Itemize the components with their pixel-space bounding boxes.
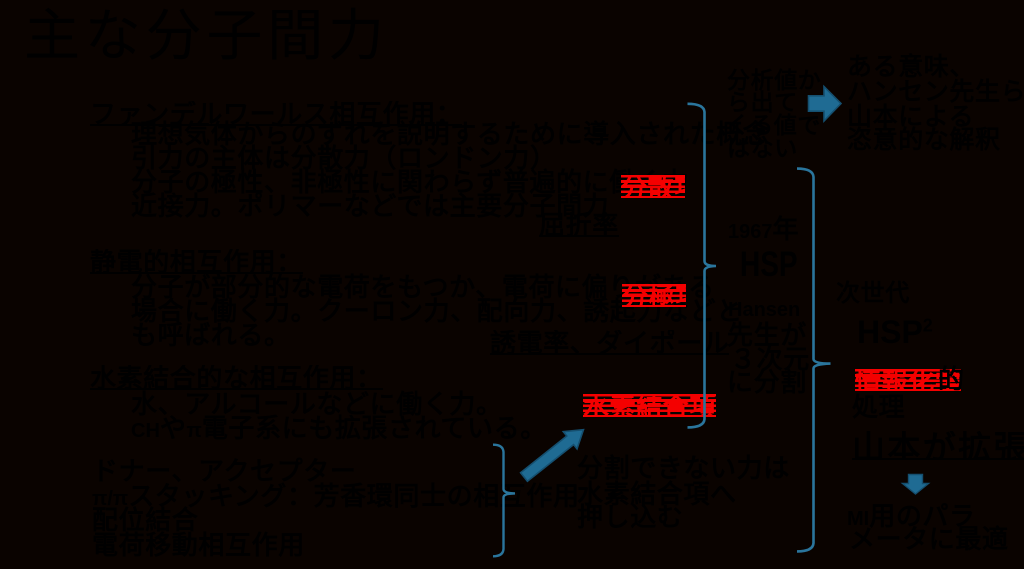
right-top column: [847, 55, 975, 80]
brace 1 (middle, groups three red terms): [688, 104, 717, 428]
section 1 body: [131, 121, 769, 147]
section 3 body: [131, 391, 503, 417]
refractive index note: [539, 212, 619, 237]
analysis note (left of right arrow): [727, 69, 821, 92]
red polarization term: [622, 284, 686, 307]
bottom-left list: [92, 458, 356, 484]
HSP column: [728, 216, 799, 242]
next-gen column: [836, 282, 910, 306]
brace 2 (right, big): [797, 169, 831, 552]
section 3 heading: [90, 365, 383, 390]
yamamoto extension: [852, 431, 1024, 460]
MI note: [847, 503, 976, 529]
section 2 body: [131, 274, 715, 300]
red informatics: [855, 369, 961, 391]
diagonal block arrow: [517, 421, 590, 486]
section 2 heading: [90, 249, 303, 274]
dielectric note: [490, 330, 729, 355]
title: [24, 8, 389, 64]
red hydrogen bond term: [583, 394, 716, 417]
down block arrow: [903, 475, 929, 495]
brace 3 (bottom-left list): [493, 445, 515, 557]
red dispersion term: [621, 175, 685, 198]
section 1 heading: [90, 101, 462, 126]
right block arrow: [809, 87, 842, 122]
push-in note: [577, 455, 790, 481]
